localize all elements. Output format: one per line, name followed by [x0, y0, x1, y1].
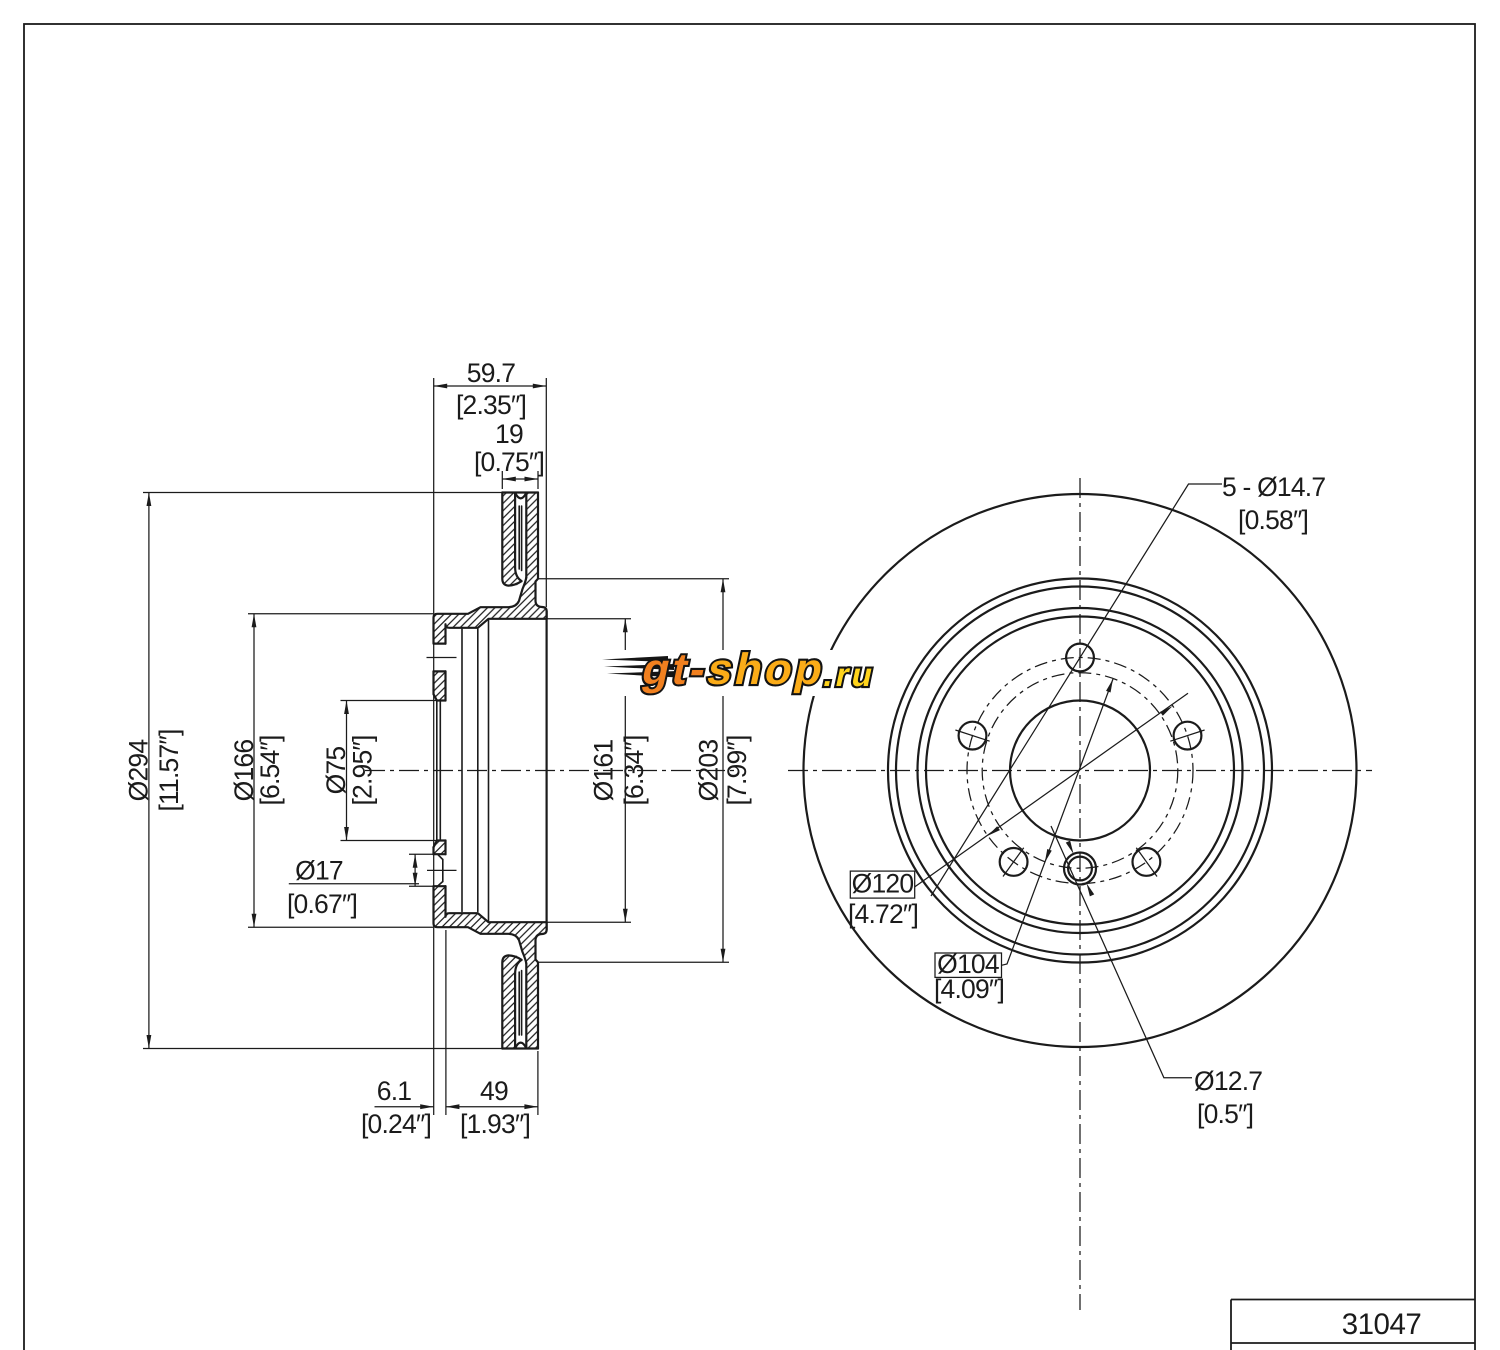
svg-text:[0.24″]: [0.24″]: [361, 1109, 431, 1139]
bolt hole lower right: [1133, 848, 1161, 876]
6.1 / 49 bottom: [445, 930, 447, 1115]
bolt hole upper right: [1174, 722, 1202, 750]
radial tick upper right hole: [1170, 730, 1204, 741]
pin hole (O17): [434, 853, 446, 855]
wall: lug hole and bore edges: [434, 670, 446, 672]
speed lines: [602, 656, 668, 662]
hatched fill: rim left plate bottom: [502, 955, 521, 1048]
svg-text:Ø17: Ø17: [295, 856, 343, 886]
bolt hole top: [1066, 644, 1094, 672]
drum right opening edge: [545, 611, 547, 930]
centerline axis: [365, 770, 735, 772]
59.7 top: [433, 378, 435, 1115]
bolt hole upper left: [959, 722, 987, 750]
vent slot inner vanes: [518, 506, 520, 569]
pin circle BCD104: [982, 673, 1178, 869]
small pin hole: [1064, 853, 1096, 885]
svg-text:[2.95″]: [2.95″]: [348, 735, 378, 805]
svg-text:[0.5″]: [0.5″]: [1197, 1099, 1253, 1129]
radial tick upper left hole: [955, 730, 989, 741]
hatched fill: rim left plate top: [502, 493, 521, 586]
O203: [538, 578, 729, 580]
bolt hole lower left: [1000, 848, 1028, 876]
hatched fill: rim right plate + neck + flange + wall top: [434, 493, 547, 644]
hat flange edge: [918, 608, 1243, 933]
hatched fill: bottom flange/neck/wall: [434, 886, 547, 1048]
svg-text:31047: 31047: [1342, 1308, 1422, 1341]
O294: [143, 492, 502, 494]
svg-text:Ø12.7: Ø12.7: [1194, 1066, 1262, 1096]
svg-text:[2.35″]: [2.35″]: [456, 390, 526, 420]
part outlines: top rim: [502, 491, 538, 493]
svg-text:Ø294: Ø294: [124, 740, 154, 802]
19: [501, 471, 503, 489]
drum edge: [926, 617, 1234, 925]
svg-text:[6.34″]: [6.34″]: [619, 735, 649, 805]
svg-text:49: 49: [480, 1076, 508, 1106]
bottom rim/flange outlines: [502, 1047, 538, 1049]
svg-text:Ø75: Ø75: [321, 747, 351, 795]
outer circle: [804, 494, 1357, 1047]
svg-text:[11.57″]: [11.57″]: [154, 729, 184, 811]
svg-text:[0.58″]: [0.58″]: [1238, 505, 1308, 535]
leader O104: [1002, 679, 1114, 965]
svg-text:Ø120: Ø120: [852, 869, 914, 899]
svg-text:Ø203: Ø203: [694, 740, 724, 802]
svg-text:[7.99″]: [7.99″]: [722, 735, 752, 805]
O161: [547, 618, 631, 620]
O75: [341, 700, 437, 702]
leader O12.7: [1051, 826, 1192, 1078]
part number box: [1231, 1299, 1475, 1301]
leader 5-O14.7: [931, 484, 1222, 896]
bolt circle BCD120: [967, 658, 1193, 884]
drum interior projected circles: [461, 629, 463, 912]
label O104 boxed: [935, 953, 1002, 977]
gt-shop.ru watermark logo: [599, 645, 897, 696]
svg-text:[4.72″]: [4.72″]: [848, 899, 918, 929]
O166: [248, 613, 433, 615]
svg-text:59.7: 59.7: [467, 358, 515, 388]
radial tick lower right hole: [1136, 848, 1157, 877]
svg-text:5 - Ø14.7: 5 - Ø14.7: [1222, 472, 1325, 502]
O17: [409, 853, 434, 855]
hatched fill: wall segment between bore and pin hole: [434, 841, 446, 855]
svg-text:Ø161: Ø161: [589, 740, 619, 802]
hatched fill: wall segment between lug hole and bore: [434, 671, 446, 700]
center bore: [1010, 701, 1150, 841]
label O120 boxed: [850, 871, 914, 898]
svg-text:[1.93″]: [1.93″]: [460, 1109, 530, 1139]
svg-text:[4.09″]: [4.09″]: [934, 974, 1004, 1004]
svg-text:6.1: 6.1: [377, 1076, 412, 1106]
svg-text:19: 19: [495, 419, 523, 449]
svg-text:[0.67″]: [0.67″]: [287, 889, 357, 919]
hole center ticks: [427, 657, 457, 659]
svg-text:[6.54″]: [6.54″]: [255, 735, 285, 805]
leader O120: [915, 693, 1188, 887]
crosshair centerlines: [788, 770, 1372, 772]
radial tick lower left hole: [1003, 848, 1024, 877]
svg-text:[0.75″]: [0.75″]: [474, 447, 544, 477]
braking band inner edges: [888, 579, 1272, 963]
